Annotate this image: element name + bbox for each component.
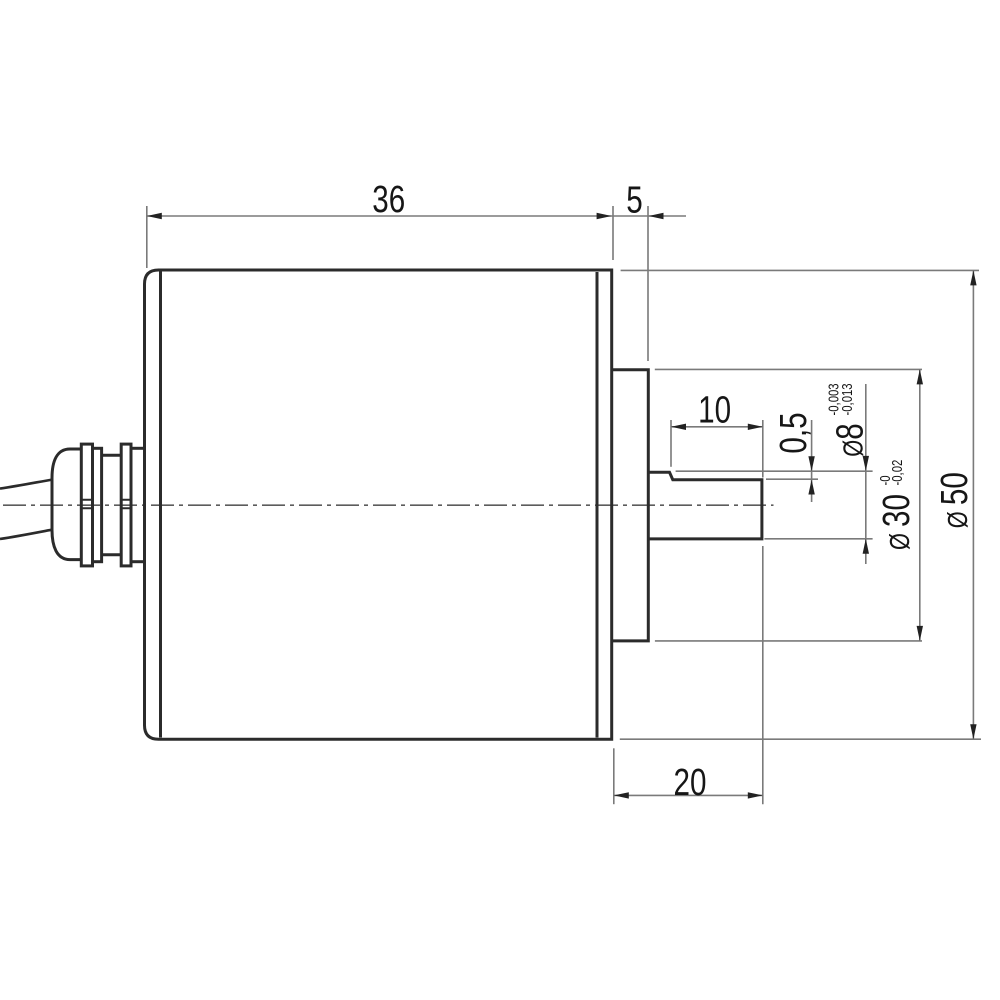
svg-text:10: 10 (698, 389, 731, 431)
svg-text:-0,02: -0,02 (889, 460, 906, 486)
svg-text:5: 5 (626, 179, 642, 221)
svg-text:0,5: 0,5 (773, 412, 815, 453)
svg-text:36: 36 (372, 179, 405, 221)
svg-text:20: 20 (674, 761, 707, 803)
svg-text:-0,013: -0,013 (839, 383, 856, 415)
